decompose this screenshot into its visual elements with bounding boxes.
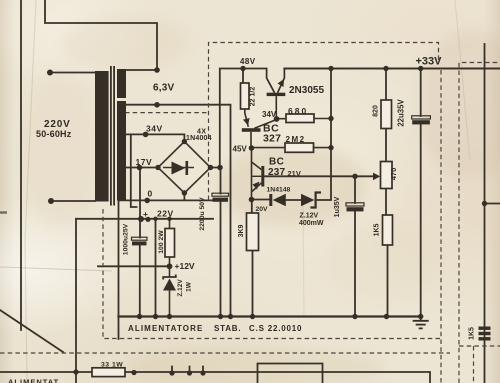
- svg-text:48V: 48V: [240, 57, 256, 66]
- resistor R9 1K5: [383, 215, 393, 245]
- svg-text:2N3055: 2N3055: [289, 85, 324, 96]
- svg-text:2M2: 2M2: [286, 135, 306, 144]
- node 17V tap: [137, 165, 143, 171]
- ground symbol: [413, 317, 429, 329]
- transformer core lines: [110, 66, 112, 206]
- junction bus branch: [153, 314, 158, 319]
- resistor R7 820: [381, 100, 392, 129]
- ground bus: [119, 315, 421, 317]
- node primary terminal top: [47, 70, 53, 76]
- node +22V terminal: [145, 217, 150, 222]
- svg-text:17V: 17V: [136, 157, 153, 167]
- capacitor C1 2200u 50V: [212, 193, 229, 202]
- diode D5 1N4148: [269, 194, 272, 206]
- svg-text:1N4004: 1N4004: [186, 135, 212, 142]
- junction 33V rail / right column: [328, 66, 333, 71]
- capacitor C4 1u 35V: [346, 203, 364, 206]
- wire left edge stub: [0, 211, 7, 213]
- node 20V: [249, 197, 255, 203]
- junction bridge right vertex: [208, 165, 213, 170]
- node 0 terminal: [144, 198, 150, 204]
- svg-text:470: 470: [389, 168, 398, 181]
- wire primary bottom lead: [51, 200, 95, 202]
- node 34V tap: [143, 132, 149, 138]
- transistor Q1 2N3055: [267, 69, 286, 120]
- svg-text:3K9: 3K9: [238, 224, 245, 237]
- wire +12V output to the left: [98, 265, 170, 267]
- junction R5 / right column: [328, 145, 333, 150]
- junction bus / 6.3V line: [228, 314, 233, 319]
- junction 21V line / C4: [352, 174, 357, 179]
- dashed border of lower module: [0, 352, 450, 354]
- resistor R2 33 1W (lamp dropper): [92, 368, 125, 377]
- dashed border outer left and bottom: [103, 209, 442, 339]
- svg-text:33 1W: 33 1W: [101, 362, 123, 369]
- wire 34V tap to bridge top: [126, 134, 184, 141]
- wire primary top lead: [50, 72, 95, 74]
- svg-text:+33V: +33V: [416, 56, 443, 68]
- wire far right vertical with output stub: [485, 44, 500, 383]
- svg-text:STAB.: STAB.: [214, 324, 241, 333]
- wire 2200u cap chain to bus: [220, 168, 222, 317]
- svg-text:400mW: 400mW: [299, 220, 324, 227]
- wire stub dropping from 34V wire: [131, 134, 137, 207]
- svg-text:2200u 50V: 2200u 50V: [199, 197, 206, 231]
- junction bus / C4: [352, 314, 357, 319]
- dashed border of right-hand module: [459, 63, 500, 383]
- wire lamp circuit bottom: [0, 372, 430, 383]
- wire 470 to 1K5 to bus: [386, 189, 388, 317]
- resistor R1 100 2W: [165, 229, 175, 258]
- transformer primary bar: [95, 71, 109, 202]
- resistor R6 3K9: [247, 213, 259, 251]
- junction bridge + output: [217, 165, 223, 171]
- node secondary top tap: [154, 67, 160, 73]
- junction lamp wire / 22V drop: [73, 369, 78, 374]
- wire 820 chain: [385, 69, 387, 162]
- junction 22V rail branch: [153, 217, 157, 221]
- dashed border stub to transformer: [125, 112, 209, 114]
- junction 22V rail / R1: [167, 217, 171, 221]
- svg-text:+: +: [143, 209, 148, 219]
- zener D6 Z.12V 1W: [163, 275, 176, 280]
- junction and terminal dots: [47, 66, 487, 376]
- resistor R3 22 1/2W: [241, 83, 250, 109]
- junction bus / R9: [384, 314, 389, 319]
- wire 17V down to +22V rail and 1000u cap to bus: [139, 168, 141, 317]
- trimmer R8 470: [381, 162, 393, 189]
- svg-text:1W: 1W: [186, 281, 193, 292]
- wire diagonal bottom left: [0, 310, 63, 352]
- wire 0 rail down to bus: [118, 196, 120, 339]
- wire 20V node to diode: [252, 199, 270, 201]
- svg-text:+12V: +12V: [175, 261, 195, 271]
- wire 1u cap chain to bus: [354, 176, 356, 316]
- wire top-left loop to transformer top tap: [45, 0, 157, 70]
- wire 3K9 chain to bus: [251, 200, 254, 317]
- capacitor C3 22u 35V: [412, 116, 431, 119]
- junction bridge top vertex: [182, 139, 187, 144]
- capacitor C2 1000u 25V: [132, 237, 148, 245]
- junction bus / D6: [167, 314, 172, 319]
- transistor Q3 BC237: [252, 148, 265, 200]
- wire bridge + output: [211, 69, 267, 168]
- svg-text:22u35V: 22u35V: [397, 99, 406, 127]
- transistor Q2 BC327: [242, 109, 277, 148]
- svg-text:1000u25V: 1000u25V: [123, 223, 130, 255]
- wire left vertical margin: [20, 0, 22, 330]
- wire +33V rail right of 2N3055 emitter: [284, 68, 500, 70]
- node primary terminal bottom: [48, 198, 54, 204]
- junction right margin line: [482, 201, 487, 206]
- zener D7 Z.12V 400mW: [301, 194, 314, 207]
- svg-text:20V: 20V: [256, 206, 269, 213]
- node 34V base: [274, 116, 280, 122]
- svg-text:ALIMENTAT: ALIMENTAT: [8, 378, 59, 383]
- node +12V: [167, 263, 173, 269]
- component box of lower module: [258, 364, 323, 383]
- wire +22V rail: [76, 218, 213, 220]
- junction 48V rail / R3: [240, 66, 245, 71]
- wire secondary top tap: [126, 69, 157, 71]
- node 6.3V tap: [154, 102, 160, 108]
- wire lamp stubs: [172, 367, 203, 374]
- junction lamp wire b: [169, 370, 174, 375]
- junction bus / ground: [418, 314, 423, 319]
- svg-text:1K5: 1K5: [469, 327, 476, 340]
- junction bus / R6: [250, 314, 255, 319]
- wire 21V collector line to trimmer: [264, 175, 377, 177]
- junction bridge left vertex: [155, 165, 160, 170]
- wire 0 tap to bridge bottom and cap minus: [119, 193, 213, 200]
- junction 17V line / +22V rail: [138, 216, 144, 222]
- junction 33V rail / C3: [418, 66, 423, 71]
- svg-text:34V: 34V: [262, 110, 277, 119]
- junction bus / C2: [137, 314, 142, 319]
- junction lamp wire c: [187, 370, 192, 375]
- dashed border left and top of stabilizer module: [209, 43, 442, 383]
- node 45V: [249, 145, 255, 151]
- wire between diodes: [286, 199, 302, 201]
- junction lamp wire d: [200, 370, 205, 375]
- wire 6.3V tap going right then down to bus: [126, 105, 231, 317]
- svg-text:Z.12V: Z.12V: [300, 213, 319, 220]
- wire right column from rail to zener node: [318, 69, 332, 201]
- svg-text:1K5: 1K5: [374, 223, 381, 236]
- transformer T1: [95, 66, 126, 206]
- svg-text:34V: 34V: [146, 124, 163, 134]
- wire +22V down to lamp circuit: [75, 219, 77, 383]
- resistor R5 2M2: [285, 143, 314, 152]
- transformer secondary bar: [117, 69, 126, 98]
- resistor R4 680: [286, 114, 314, 123]
- junction lamp wire a: [131, 370, 136, 375]
- svg-text:ALIMENTATORE: ALIMENTATORE: [128, 324, 203, 333]
- junction bus / C1: [218, 314, 223, 319]
- svg-text:327: 327: [263, 133, 281, 145]
- svg-text:680: 680: [288, 106, 308, 116]
- svg-text:0: 0: [148, 189, 153, 199]
- svg-text:237: 237: [268, 167, 286, 178]
- svg-text:1u35V: 1u35V: [334, 196, 341, 217]
- wire vertical to bus: [155, 219, 157, 317]
- capacitor C5 right margin: [479, 327, 491, 341]
- bridge rectifier B1 4x 1N4004: [158, 142, 211, 194]
- junction 33V rail / R7: [383, 66, 388, 71]
- wire 22u cap chain: [420, 69, 422, 317]
- wire 17V tap to bridge left: [126, 167, 158, 169]
- junction bridge bottom vertex: [182, 190, 187, 195]
- svg-text:22V: 22V: [157, 209, 174, 219]
- svg-text:6,3V: 6,3V: [153, 83, 175, 94]
- svg-text:21V: 21V: [288, 169, 301, 178]
- junction R4 / right column: [328, 116, 333, 121]
- svg-text:100 2W: 100 2W: [158, 230, 165, 254]
- svg-text:50-60Hz: 50-60Hz: [36, 129, 72, 139]
- svg-text:820: 820: [373, 105, 380, 117]
- svg-text:C.S 22.0010: C.S 22.0010: [249, 324, 302, 333]
- svg-text:45V: 45V: [233, 144, 248, 153]
- wire 22ohm resistor drop from 48V rail: [242, 69, 244, 84]
- svg-text:22 1/2: 22 1/2: [250, 87, 257, 107]
- svg-text:Z.12V: Z.12V: [177, 279, 184, 297]
- svg-text:1N4148: 1N4148: [267, 187, 291, 194]
